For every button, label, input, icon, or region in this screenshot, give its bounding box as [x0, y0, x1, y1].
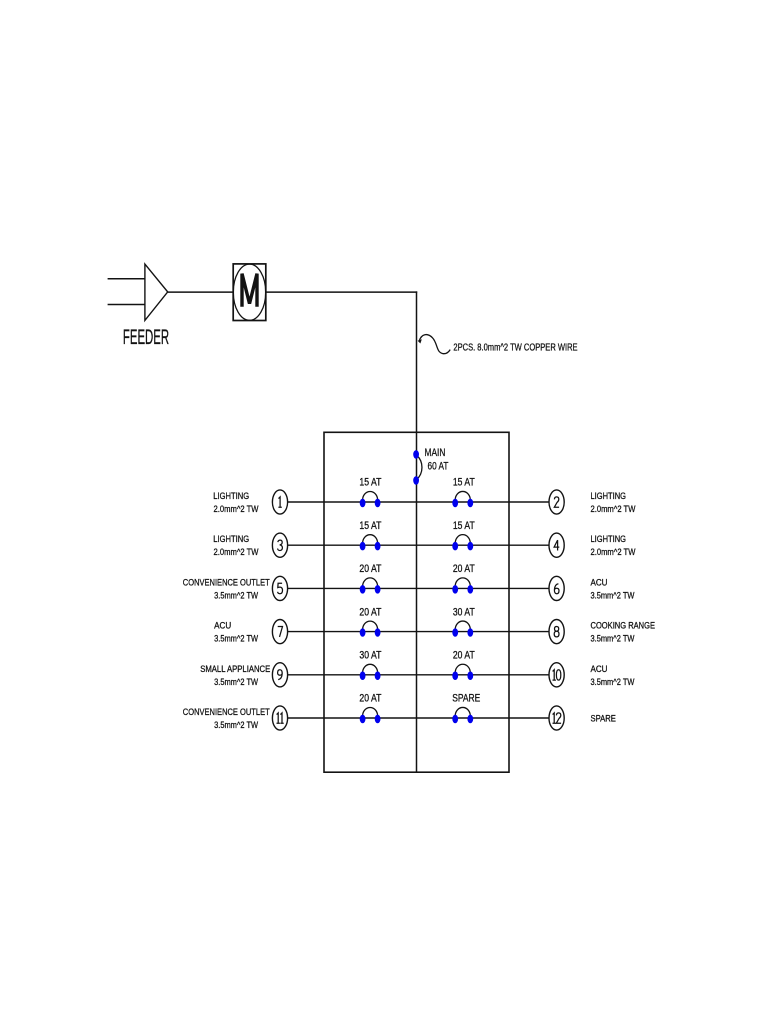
svg-text:CONVENIENCE OUTLET: CONVENIENCE OUTLET: [183, 577, 270, 588]
svg-text:2.0mm^2 TW: 2.0mm^2 TW: [591, 547, 637, 558]
svg-text:60 AT: 60 AT: [428, 461, 449, 473]
svg-text:2PCS. 8.0mm^2 TW COPPER WIRE: 2PCS. 8.0mm^2 TW COPPER WIRE: [453, 342, 577, 353]
svg-text:CONVENIENCE OUTLET: CONVENIENCE OUTLET: [183, 707, 270, 718]
node circle 11: [272, 706, 287, 730]
main breaker bottom contact: [413, 476, 419, 485]
svg-text:20 AT: 20 AT: [359, 693, 381, 705]
breaker CB3 arc: [363, 535, 378, 544]
breaker CB10 right contact: [467, 671, 473, 680]
svg-text:15 AT: 15 AT: [453, 520, 475, 532]
breaker CB5 left contact: [360, 585, 366, 594]
svg-text:2.0mm^2 TW: 2.0mm^2 TW: [214, 547, 260, 558]
svg-text:30 AT: 30 AT: [453, 606, 475, 618]
breaker CB9 left contact: [360, 671, 366, 680]
svg-text:3.5mm^2 TW: 3.5mm^2 TW: [214, 677, 259, 688]
label 10: [553, 670, 561, 680]
label 9: [278, 670, 283, 680]
label 5: [278, 583, 283, 593]
breaker CB11 left contact: [360, 715, 366, 724]
svg-text:2.0mm^2 TW: 2.0mm^2 TW: [214, 504, 260, 515]
breaker CB5 arc: [363, 578, 378, 587]
svg-text:FEEDER: FEEDER: [123, 326, 169, 349]
breaker CB1 right contact: [375, 499, 381, 508]
breaker CB9 arc: [363, 664, 378, 673]
circuit row 5/6 wire: [288, 587, 549, 589]
node circle 10: [549, 663, 564, 687]
feeder arrow symbol: [145, 264, 168, 320]
breaker CB6 right contact: [467, 585, 473, 594]
breaker CB3 left contact: [360, 542, 366, 551]
svg-text:COOKING RANGE: COOKING RANGE: [591, 621, 656, 632]
breaker CB5 right contact: [375, 585, 381, 594]
breaker CB12 right contact: [467, 715, 473, 724]
svg-text:ACU: ACU: [591, 664, 608, 675]
wire meter to riser: [266, 291, 417, 293]
node circle 2: [549, 490, 564, 514]
node circle 9: [272, 663, 287, 687]
breaker CB8 right contact: [467, 628, 473, 637]
breaker CB1 arc: [363, 492, 378, 501]
svg-text:MAIN: MAIN: [425, 447, 446, 459]
breaker CB9 right contact: [375, 671, 381, 680]
node circle 5: [272, 576, 287, 600]
svg-text:SMALL APPLIANCE: SMALL APPLIANCE: [200, 664, 270, 675]
svg-text:LIGHTING: LIGHTING: [591, 534, 627, 545]
main breaker arc: [417, 455, 422, 480]
meter M letter: [242, 274, 257, 307]
breaker CB2 left contact: [452, 499, 458, 508]
breaker CB2 arc: [455, 491, 470, 500]
breaker CB4 arc: [455, 535, 470, 544]
svg-text:20 AT: 20 AT: [359, 563, 381, 575]
circuit row 1/2 wire: [288, 501, 549, 503]
breaker CB10 arc: [455, 664, 470, 673]
circuit row 3/4 wire: [288, 544, 549, 546]
breaker CB4 left contact: [452, 542, 458, 551]
label 1: [278, 497, 281, 507]
wire arrow to meter: [168, 291, 234, 293]
wire feeder input top: [108, 278, 145, 280]
wire riser drop to panel bus: [416, 291, 418, 772]
label 11: [277, 713, 284, 723]
node circle 8: [549, 620, 564, 644]
breaker CB12 left contact: [452, 715, 458, 724]
node circle 12: [549, 706, 564, 730]
label 8: [554, 627, 559, 637]
svg-text:SPARE: SPARE: [591, 714, 616, 725]
panelboard enclosure: [324, 432, 509, 772]
svg-text:15 AT: 15 AT: [359, 520, 381, 532]
circuit row 9/10 wire: [288, 674, 549, 676]
svg-text:3.5mm^2 TW: 3.5mm^2 TW: [214, 590, 259, 601]
label 6: [554, 584, 559, 594]
svg-text:ACU: ACU: [214, 621, 231, 632]
svg-text:LIGHTING: LIGHTING: [591, 491, 627, 502]
breaker CB4 right contact: [467, 542, 473, 551]
node circle 4: [549, 533, 564, 557]
breaker CB6 arc: [455, 578, 470, 587]
circuit row 11/12 wire: [288, 717, 549, 719]
svg-text:3.5mm^2 TW: 3.5mm^2 TW: [214, 634, 259, 645]
svg-text:ACU: ACU: [591, 577, 608, 588]
label 4: [554, 540, 559, 550]
svg-text:LIGHTING: LIGHTING: [213, 534, 249, 545]
breaker CB2 right contact: [467, 499, 473, 508]
svg-text:15 AT: 15 AT: [453, 477, 475, 489]
breaker CB12 arc: [455, 707, 470, 716]
main breaker top contact: [413, 450, 419, 459]
svg-text:SPARE: SPARE: [452, 693, 480, 705]
svg-text:3.5mm^2 TW: 3.5mm^2 TW: [591, 677, 636, 688]
breaker CB8 left contact: [452, 628, 458, 637]
svg-text:3.5mm^2 TW: 3.5mm^2 TW: [591, 590, 636, 601]
leader arrowhead: [418, 339, 422, 343]
svg-text:20 AT: 20 AT: [359, 606, 381, 618]
breaker CB3 right contact: [375, 542, 381, 551]
label 3: [278, 540, 283, 550]
breaker CB7 right contact: [375, 628, 381, 637]
meter M enclosure: [233, 264, 266, 321]
breaker CB8 arc: [455, 621, 470, 630]
label 2: [554, 497, 559, 507]
node circle 1: [272, 490, 287, 514]
breaker CB10 left contact: [452, 671, 458, 680]
circuit row 7/8 wire: [288, 631, 549, 633]
svg-text:LIGHTING: LIGHTING: [213, 491, 249, 502]
meter M ellipse: [233, 264, 265, 320]
wire feeder input bottom: [108, 304, 145, 306]
breaker CB6 left contact: [452, 585, 458, 594]
svg-text:3.5mm^2 TW: 3.5mm^2 TW: [591, 634, 636, 645]
node circle 7: [272, 620, 287, 644]
svg-text:30 AT: 30 AT: [359, 650, 381, 662]
label 7: [278, 627, 283, 637]
breaker CB7 arc: [363, 621, 378, 630]
leader squiggle to wire note: [419, 335, 450, 354]
breaker CB11 right contact: [375, 715, 381, 724]
svg-text:15 AT: 15 AT: [359, 477, 381, 489]
breaker CB1 left contact: [360, 499, 366, 508]
svg-text:20 AT: 20 AT: [453, 563, 475, 575]
svg-text:20 AT: 20 AT: [453, 650, 475, 662]
node circle 6: [549, 576, 564, 600]
node circle 3: [272, 533, 287, 557]
label 12: [553, 713, 562, 723]
breaker CB7 left contact: [360, 628, 366, 637]
svg-text:3.5mm^2 TW: 3.5mm^2 TW: [214, 720, 259, 731]
breaker CB11 arc: [363, 708, 378, 716]
svg-text:2.0mm^2 TW: 2.0mm^2 TW: [591, 504, 637, 515]
